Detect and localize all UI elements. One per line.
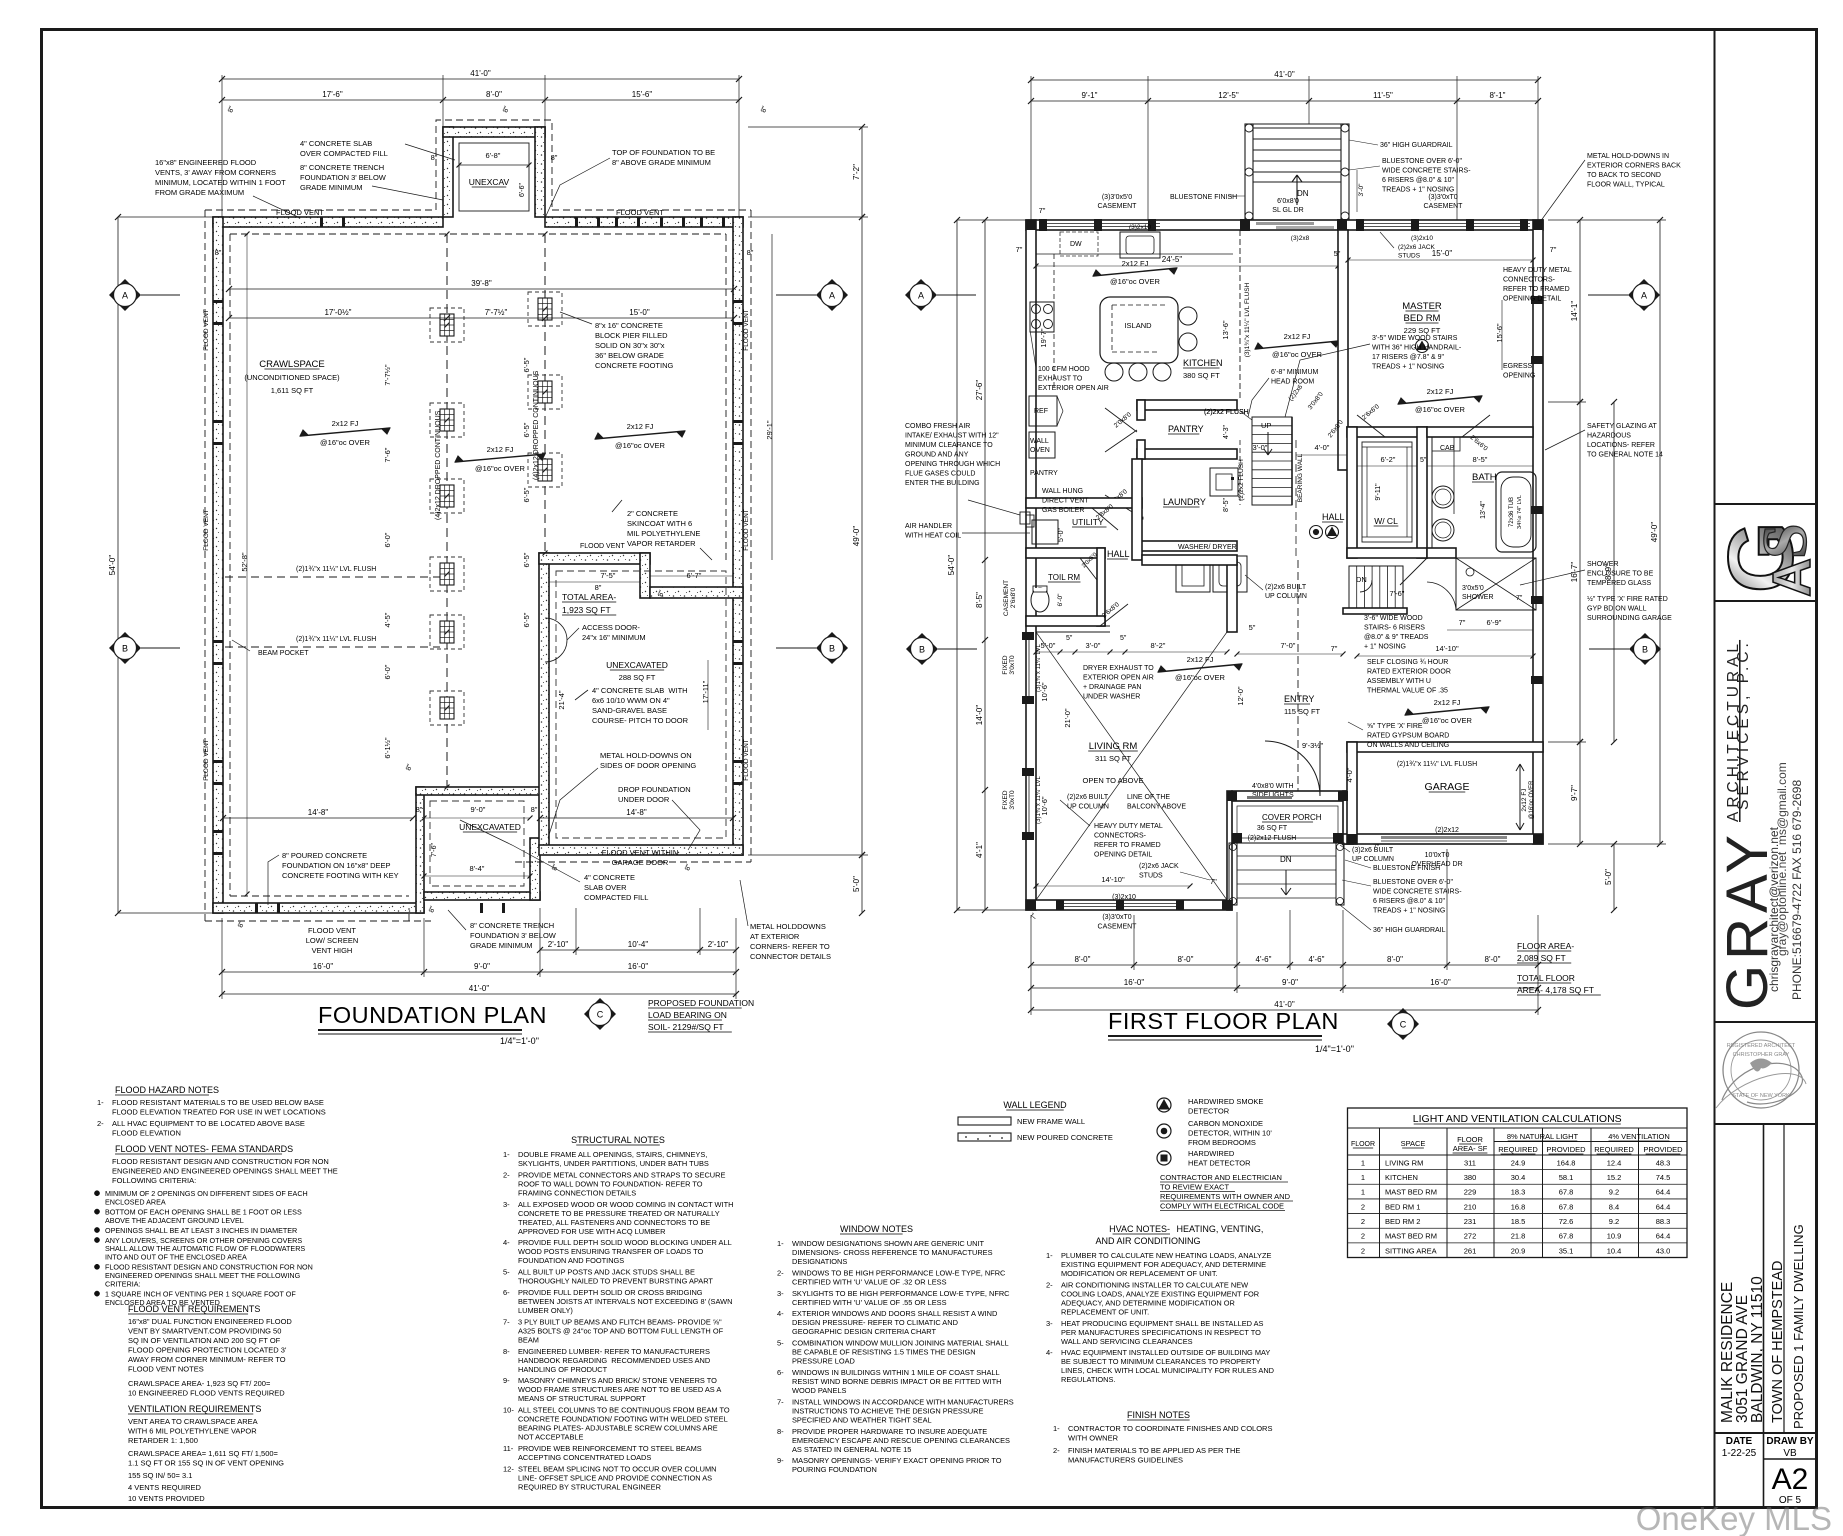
- svg-text:REQUIRED BY STRUCTURAL ENGINEE: REQUIRED BY STRUCTURAL ENGINEER: [518, 1482, 661, 1491]
- svg-text:FOUNDATION 3' BELOW: FOUNDATION 3' BELOW: [470, 931, 557, 940]
- svg-text:CONNECTORS-: CONNECTORS-: [1503, 277, 1556, 284]
- svg-text:6x6 10/10 WWM ON 4": 6x6 10/10 WWM ON 4": [592, 696, 670, 705]
- svg-text:DN: DN: [1297, 189, 1309, 198]
- svg-text:20.9: 20.9: [1511, 1246, 1526, 1255]
- svg-text:(2)2x12: (2)2x12: [1435, 827, 1459, 834]
- svg-text:A2: A2: [1772, 1463, 1809, 1496]
- svg-text:2: 2: [1361, 1232, 1365, 1241]
- svg-text:WINDOW NOTES: WINDOW NOTES: [840, 1224, 913, 1234]
- svg-text:3'0xT0: 3'0xT0: [1009, 655, 1016, 675]
- svg-text:FLOOD ELEVATION TREATED FOR US: FLOOD ELEVATION TREATED FOR USE IN WET L…: [112, 1108, 326, 1117]
- svg-text:4'-0": 4'-0": [1345, 767, 1354, 782]
- svg-text:OPENINGS SHALL BE AT LEAST 3 I: OPENINGS SHALL BE AT LEAST 3 INCHES IN D…: [105, 1226, 297, 1235]
- svg-text:ENCLOSED AREA: ENCLOSED AREA: [105, 1197, 166, 1206]
- svg-text:2'-10": 2'-10": [548, 940, 569, 949]
- svg-text:BLOCK PIER FILLED: BLOCK PIER FILLED: [595, 331, 668, 340]
- 14-8 interior chain: [223, 817, 413, 819]
- svg-text:MANUFACTURERS GUIDELINES: MANUFACTURERS GUIDELINES: [1068, 1456, 1183, 1465]
- svg-text:PROVIDE FULL DEPTH SOLID WOOD: PROVIDE FULL DEPTH SOLID WOOD BLOCKING U…: [518, 1238, 732, 1247]
- svg-text:74.5: 74.5: [1656, 1173, 1671, 1182]
- svg-text:ALL BUILT UP POSTS AND JACK ST: ALL BUILT UP POSTS AND JACK STUDS SHALL …: [518, 1268, 695, 1277]
- misc angled doors top right of hall: [1357, 415, 1385, 437]
- svg-text:36" HIGH GUARDRAIL: 36" HIGH GUARDRAIL: [1373, 927, 1446, 934]
- svg-text:48.3: 48.3: [1656, 1158, 1671, 1167]
- svg-text:UNDER DOOR: UNDER DOOR: [618, 795, 670, 804]
- svg-text:2: 2: [1361, 1217, 1365, 1226]
- svg-text:8'-0": 8'-0": [1387, 955, 1403, 964]
- svg-text:NOT ACCEPTABLE: NOT ACCEPTABLE: [518, 1433, 584, 1442]
- svg-text:CONNECTORS-: CONNECTORS-: [1094, 833, 1147, 840]
- interior top dims: [229, 288, 734, 290]
- svg-text:DOUBLE FRAME ALL OPENINGS, STA: DOUBLE FRAME ALL OPENINGS, STAIRS, CHIMN…: [518, 1150, 707, 1159]
- svg-text:72x36 TUB: 72x36 TUB: [1509, 497, 1515, 527]
- svg-text:FINISH MATERIALS TO BE APPLIED: FINISH MATERIALS TO BE APPLIED AS PER TH…: [1068, 1446, 1240, 1455]
- svg-text:2-: 2-: [1046, 1280, 1053, 1289]
- svg-text:8'-1": 8'-1": [1490, 91, 1506, 100]
- svg-text:TREATED, ALL FASTENERS AND CON: TREATED, ALL FASTENERS AND CONNECTORS TO…: [518, 1218, 710, 1227]
- svg-text:GRADE MINIMUM: GRADE MINIMUM: [470, 941, 533, 950]
- svg-text:FLOOD RESISTANT MATERIALS TO B: FLOOD RESISTANT MATERIALS TO BE USED BEL…: [112, 1098, 324, 1107]
- svg-text:RATED EXTERIOR DOOR: RATED EXTERIOR DOOR: [1367, 669, 1451, 676]
- svg-text:4'-0": 4'-0": [1315, 443, 1330, 452]
- svg-text:41'-0": 41'-0": [470, 69, 491, 78]
- svg-text:FRAMING CONNECTION DETAILS: FRAMING CONNECTION DETAILS: [518, 1188, 636, 1197]
- svg-text:3-: 3-: [1046, 1319, 1053, 1328]
- svg-text:(2)2x6 BUILT: (2)2x6 BUILT: [1265, 584, 1307, 591]
- svg-text:36" BELOW GRADE: 36" BELOW GRADE: [595, 351, 664, 360]
- svg-text:1-: 1-: [97, 1098, 104, 1107]
- svg-text:4% VENTILATION: 4% VENTILATION: [1608, 1132, 1670, 1141]
- svg-text:BE SUBJECT TO MINIMUM CLEARANC: BE SUBJECT TO MINIMUM CLEARANCES TO PROP…: [1061, 1357, 1261, 1366]
- svg-text:CORNERS- REFER TO: CORNERS- REFER TO: [750, 942, 830, 951]
- svg-text:3'-0": 3'-0": [1358, 183, 1365, 197]
- svg-text:CHRISTOPHER GRAY: CHRISTOPHER GRAY: [1733, 1052, 1790, 1058]
- svg-text:SPACE: SPACE: [1401, 1139, 1426, 1148]
- svg-text:CERTIFIED WITH 'U' VALUE OF .3: CERTIFIED WITH 'U' VALUE OF .32 OR LESS: [792, 1277, 947, 1286]
- svg-text:SELF CLOSING ¾ HOUR: SELF CLOSING ¾ HOUR: [1367, 659, 1448, 666]
- svg-text:APPROVED FOR USE WITH ACQ LUMB: APPROVED FOR USE WITH ACQ LUMBER: [518, 1227, 665, 1236]
- svg-text:LIVING RM: LIVING RM: [1385, 1158, 1423, 1167]
- svg-text:METAL HOLD-DOWNS IN: METAL HOLD-DOWNS IN: [1587, 153, 1669, 160]
- svg-text:12'-0": 12'-0": [1236, 686, 1245, 705]
- svg-text:MEANS OF STRUCTURAL SUPPORT: MEANS OF STRUCTURAL SUPPORT: [518, 1394, 646, 1403]
- svg-text:14'-8": 14'-8": [308, 808, 329, 817]
- svg-text:4" CONCRETE SLAB WITH: 4" CONCRETE SLAB WITH: [592, 686, 688, 695]
- svg-text:ABOVE THE ADJACENT GROUND LEVE: ABOVE THE ADJACENT GROUND LEVEL: [105, 1216, 244, 1225]
- svg-text:PROVIDE WEB REINFORCEMENT TO S: PROVIDE WEB REINFORCEMENT TO STEEL BEAMS: [518, 1444, 702, 1453]
- svg-text:REQUIRED: REQUIRED: [1498, 1145, 1538, 1154]
- svg-text:2x12 FJ: 2x12 FJ: [487, 445, 514, 454]
- svg-text:CONNECTOR DETAILS: CONNECTOR DETAILS: [750, 952, 831, 961]
- svg-text:LAUNDRY: LAUNDRY: [1163, 497, 1206, 507]
- svg-text:FLOOR WALL, TYPICAL: FLOOR WALL, TYPICAL: [1587, 182, 1665, 189]
- svg-text:FLOOR: FLOOR: [1457, 1135, 1483, 1144]
- svg-text:CRAWLSPACE: CRAWLSPACE: [259, 359, 324, 370]
- svg-text:BALDWIN, NY 11510: BALDWIN, NY 11510: [1749, 1276, 1766, 1423]
- svg-text:16"x8" DUAL FUNCTION ENGINEERE: 16"x8" DUAL FUNCTION ENGINEERED FLOOD: [128, 1317, 292, 1326]
- svg-text:WINDOW DESIGNATIONS SHOWN ARE: WINDOW DESIGNATIONS SHOWN ARE GENERIC UN…: [792, 1239, 985, 1248]
- svg-text:MAST BED RM: MAST BED RM: [1385, 1232, 1437, 1241]
- svg-text:HALL: HALL: [1322, 512, 1345, 522]
- outer footing dashed boundary: [205, 120, 751, 921]
- svg-text:PROPOSED FOUNDATION: PROPOSED FOUNDATION: [648, 998, 754, 1008]
- svg-text:8" CONCRETE TRENCH: 8" CONCRETE TRENCH: [300, 163, 384, 172]
- svg-text:7": 7": [1516, 595, 1523, 602]
- basement stairs DN: [1349, 566, 1403, 608]
- svg-text:6'-8": 6'-8": [486, 151, 501, 160]
- first floor top dimension chains: [1031, 79, 1538, 81]
- svg-text:HAZARDOUS: HAZARDOUS: [1587, 433, 1631, 440]
- svg-text:1.1 SQ FT OR 155 SQ IN OF VENT: 1.1 SQ FT OR 155 SQ IN OF VENT OPENING: [128, 1459, 284, 1468]
- svg-text:FLOOD VENT: FLOOD VENT: [580, 543, 625, 550]
- svg-text:WALL: WALL: [1030, 438, 1049, 445]
- svg-text:+ DRAINAGE PAN: + DRAINAGE PAN: [1083, 684, 1141, 691]
- svg-text:+ 1" NOSING: + 1" NOSING: [1364, 644, 1406, 651]
- svg-text:4'-6": 4'-6": [1256, 955, 1272, 964]
- first floor bottom dims: [1031, 964, 1538, 966]
- svg-text:8.4: 8.4: [1609, 1202, 1619, 1211]
- porch stairs: [1229, 843, 1237, 905]
- svg-text:11'-5": 11'-5": [1373, 91, 1393, 100]
- svg-text:8'-0": 8'-0": [1178, 955, 1194, 964]
- svg-text:2-: 2-: [97, 1119, 104, 1128]
- svg-text:MASONRY OPENINGS- VERIFY EXACT: MASONRY OPENINGS- VERIFY EXACT OPENING P…: [792, 1456, 1002, 1465]
- svg-text:SLAB OVER: SLAB OVER: [584, 883, 627, 892]
- svg-text:8'-5": 8'-5": [1473, 455, 1488, 464]
- svg-text:EMERGENCY ESCAPE AND RESCUE OP: EMERGENCY ESCAPE AND RESCUE OPENING CLEA…: [792, 1436, 1010, 1445]
- kitchen counter dashed: [1053, 254, 1055, 390]
- light and ventilation calculations table: [1348, 1108, 1688, 1258]
- svg-text:VENTILATION REQUIREMENTS: VENTILATION REQUIREMENTS: [128, 1404, 261, 1414]
- svg-text:8'-0": 8'-0": [486, 90, 502, 99]
- svg-text:OPENING DETAIL: OPENING DETAIL: [1094, 852, 1152, 859]
- svg-text:FIRST FLOOR PLAN: FIRST FLOOR PLAN: [1108, 1008, 1339, 1034]
- left exterior dim 54-0: [117, 217, 119, 913]
- svg-text:TO GENERAL NOTE 14: TO GENERAL NOTE 14: [1587, 452, 1663, 459]
- right side dims first floor: [1579, 220, 1581, 402]
- svg-text:ENGINEERED LUMBER- REFER TO MA: ENGINEERED LUMBER- REFER TO MANUFACTURER…: [518, 1347, 710, 1356]
- svg-text:4-: 4-: [777, 1309, 784, 1318]
- svg-text:TREADS + 1" NOSING: TREADS + 1" NOSING: [1373, 908, 1445, 915]
- svg-text:15'-0": 15'-0": [629, 308, 650, 317]
- svg-text:MASTER: MASTER: [1402, 301, 1442, 312]
- svg-text:10.9: 10.9: [1607, 1232, 1622, 1241]
- svg-text:SERVICES, P.C.: SERVICES, P.C.: [1735, 639, 1752, 810]
- svg-text:2-: 2-: [1053, 1446, 1060, 1455]
- svg-text:BEARING PLATES- ADJUSTABLE SCR: BEARING PLATES- ADJUSTABLE SCREW COLUMNS…: [518, 1424, 718, 1433]
- svg-text:(2)2x6 JACK: (2)2x6 JACK: [1398, 244, 1436, 251]
- svg-text:DETECTOR: DETECTOR: [1188, 1107, 1230, 1116]
- svg-text:16'-0": 16'-0": [1124, 978, 1145, 987]
- svg-text:DRAW BY: DRAW BY: [1766, 1436, 1814, 1447]
- svg-text:A: A: [1641, 291, 1647, 301]
- svg-text:6'-9": 6'-9": [1487, 618, 1502, 627]
- svg-text:FLOOD VENT NOTES: FLOOD VENT NOTES: [128, 1365, 204, 1374]
- svg-text:HEAVY DUTY METAL: HEAVY DUTY METAL: [1503, 267, 1572, 274]
- svg-text:58.1: 58.1: [1559, 1173, 1574, 1182]
- svg-text:FLOOD VENT REQUIREMENTS: FLOOD VENT REQUIREMENTS: [128, 1304, 260, 1314]
- svg-text:7'-7½": 7'-7½": [485, 308, 508, 317]
- svg-text:BEAM: BEAM: [518, 1335, 539, 1344]
- svg-text:TEMPERED GLASS: TEMPERED GLASS: [1587, 580, 1652, 587]
- svg-text:TO BACK TO SECOND: TO BACK TO SECOND: [1587, 172, 1661, 179]
- svg-text:@16"oc OVER: @16"oc OVER: [615, 441, 665, 450]
- svg-text:UP COLUMN: UP COLUMN: [1067, 804, 1109, 811]
- svg-text:13'-6": 13'-6": [1221, 320, 1230, 339]
- svg-text:SKYLIGHTS TO BE HIGH PERFORMAN: SKYLIGHTS TO BE HIGH PERFORMANCE LOW-E T…: [792, 1289, 1010, 1298]
- svg-text:2'-10": 2'-10": [708, 940, 729, 949]
- svg-text:POURING FOUNDATION: POURING FOUNDATION: [792, 1465, 877, 1474]
- svg-text:(2)1¾"x 11¼" LVL FLUSH: (2)1¾"x 11¼" LVL FLUSH: [296, 566, 376, 573]
- svg-text:(3)2x6 BUILT: (3)2x6 BUILT: [1352, 847, 1394, 854]
- svg-text:4" CONCRETE SLAB: 4" CONCRETE SLAB: [300, 139, 372, 148]
- svg-text:DETECTOR, WITHIN 10': DETECTOR, WITHIN 10': [1188, 1129, 1272, 1138]
- cover porch: [1232, 801, 1343, 843]
- svg-text:REPLACEMENT OF UNIT.: REPLACEMENT OF UNIT.: [1061, 1307, 1149, 1316]
- svg-text:BE CAPABLE OF RESISTING 1.5 TI: BE CAPABLE OF RESISTING 1.5 TIMES THE DE…: [792, 1348, 976, 1357]
- svg-text:A: A: [122, 291, 128, 301]
- svg-text:OVER COMPACTED FILL: OVER COMPACTED FILL: [300, 149, 388, 158]
- svg-text:DRYER EXHAUST TO: DRYER EXHAUST TO: [1083, 665, 1154, 672]
- interior dim ticks along girders: [445, 232, 450, 237]
- svg-text:4'-1": 4'-1": [975, 842, 984, 858]
- svg-text:SOIL- 2129#/SQ FT: SOIL- 2129#/SQ FT: [648, 1022, 724, 1032]
- svg-text:6'-8" MINIMUM: 6'-8" MINIMUM: [1271, 369, 1319, 376]
- svg-text:ALL STEEL COLUMNS TO BE CONTIN: ALL STEEL COLUMNS TO BE CONTINUOUS FROM …: [518, 1406, 730, 1415]
- svg-text:VAPOR RETARDER: VAPOR RETARDER: [627, 539, 696, 548]
- svg-text:10'0xT0: 10'0xT0: [1425, 852, 1450, 859]
- svg-text:3'0x8'0: 3'0x8'0: [1307, 391, 1325, 412]
- svg-text:3 PLY BUILT UP BEAMS AND FLITC: 3 PLY BUILT UP BEAMS AND FLITCH BEAMS- P…: [518, 1317, 722, 1326]
- svg-text:HANDLING OF PRODUCT: HANDLING OF PRODUCT: [518, 1365, 608, 1374]
- svg-text:AND AIR CONDITIONING: AND AIR CONDITIONING: [1095, 1236, 1200, 1246]
- svg-text:16"x8" ENGINEERED FLOOD: 16"x8" ENGINEERED FLOOD: [155, 158, 257, 167]
- svg-text:19'-7": 19'-7": [1039, 328, 1048, 347]
- svg-text:1,611 SQ FT: 1,611 SQ FT: [271, 386, 314, 395]
- svg-text:9'-1": 9'-1": [1082, 91, 1098, 100]
- stairs up center: [1252, 417, 1292, 505]
- svg-text:RATED GYPSUM BOARD: RATED GYPSUM BOARD: [1367, 733, 1449, 740]
- svg-text:2-: 2-: [503, 1170, 510, 1179]
- svg-text:7-: 7-: [777, 1397, 784, 1406]
- svg-text:PLUMBER TO CALCULATE NEW HEATI: PLUMBER TO CALCULATE NEW HEATING LOADS, …: [1061, 1251, 1271, 1260]
- svg-text:4'-5": 4'-5": [383, 612, 392, 627]
- svg-text:36" HIGH GUARDRAIL: 36" HIGH GUARDRAIL: [1380, 142, 1453, 149]
- svg-text:CONTRACTOR AND ELECTRICIAN: CONTRACTOR AND ELECTRICIAN: [1160, 1173, 1282, 1182]
- svg-text:1: 1: [1361, 1158, 1365, 1167]
- svg-text:GEOGRAPHIC DESIGN CRITERIA CHA: GEOGRAPHIC DESIGN CRITERIA CHART: [792, 1327, 936, 1336]
- svg-text:COMPLY WITH ELECTRICAL CODE: COMPLY WITH ELECTRICAL CODE: [1160, 1202, 1284, 1211]
- svg-text:WITH OWNER: WITH OWNER: [1068, 1434, 1119, 1443]
- svg-text:311: 311: [1464, 1158, 1476, 1167]
- svg-text:6 RISERS @8.0" & 10": 6 RISERS @8.0" & 10": [1382, 177, 1455, 184]
- svg-text:8'-0": 8'-0": [1485, 955, 1501, 964]
- svg-text:SAND-GRAVEL BASE: SAND-GRAVEL BASE: [592, 706, 667, 715]
- svg-text:7": 7": [1459, 618, 1466, 627]
- svg-text:LOW/ SCREEN: LOW/ SCREEN: [306, 936, 359, 945]
- svg-text:OPENING DETAIL: OPENING DETAIL: [1503, 296, 1561, 303]
- svg-text:NEW FRAME WALL: NEW FRAME WALL: [1017, 1117, 1085, 1126]
- svg-text:REGULATIONS.: REGULATIONS.: [1061, 1375, 1115, 1384]
- svg-text:COOLING LOADS, ANALYZE EXISTIN: COOLING LOADS, ANALYZE EXISTING EQUIPMEN…: [1061, 1289, 1259, 1298]
- svg-text:SITTING AREA: SITTING AREA: [1385, 1246, 1437, 1255]
- svg-text:VENT BY SMARTVENT.COM PROVIDIN: VENT BY SMARTVENT.COM PROVIDING 50: [128, 1327, 281, 1336]
- hall bottom walls / entry top: [1227, 560, 1237, 632]
- svg-text:PROVIDE FULL DEPTH SOLID OR CR: PROVIDE FULL DEPTH SOLID OR CROSS BRIDGI…: [518, 1288, 703, 1297]
- svg-text:3'-6" WIDE WOOD: 3'-6" WIDE WOOD: [1364, 615, 1423, 622]
- svg-text:49'-0": 49'-0": [1650, 522, 1659, 543]
- svg-text:2-: 2-: [777, 1268, 784, 1277]
- svg-text:REGISTERED ARCHITECT: REGISTERED ARCHITECT: [1727, 1043, 1796, 1049]
- svg-text:AIR HANDLER: AIR HANDLER: [905, 523, 952, 530]
- svg-text:AS STATED IN GENERAL NOTE 15: AS STATED IN GENERAL NOTE 15: [792, 1445, 911, 1454]
- svg-text:ENGINEERED AND ENGINEERED OPEN: ENGINEERED AND ENGINEERED OPENINGS SHALL…: [112, 1167, 338, 1176]
- svg-text:PRESSURE LOAD: PRESSURE LOAD: [792, 1357, 855, 1366]
- svg-text:DESIGN PRESSURE- REFER TO CLIM: DESIGN PRESSURE- REFER TO CLIMATIC AND: [792, 1318, 958, 1327]
- svg-text:FLOOD VENT NOTES- FEMA STANDAR: FLOOD VENT NOTES- FEMA STANDARDS: [115, 1144, 293, 1154]
- svg-text:@16"oc OVER: @16"oc OVER: [1415, 405, 1465, 414]
- svg-text:229: 229: [1464, 1188, 1477, 1197]
- svg-text:6-: 6-: [777, 1368, 784, 1377]
- svg-text:TOIL RM: TOIL RM: [1048, 573, 1080, 582]
- svg-text:MINIMUM CLEARANCE TO: MINIMUM CLEARANCE TO: [905, 442, 993, 449]
- svg-text:9'-3½": 9'-3½": [1302, 741, 1324, 750]
- svg-text:OPENING THROUGH WHICH: OPENING THROUGH WHICH: [905, 461, 1000, 468]
- svg-text:2x12 FJ: 2x12 FJ: [1434, 698, 1461, 707]
- svg-text:EGRESS: EGRESS: [1503, 363, 1533, 370]
- svg-text:@16"oc OVER: @16"oc OVER: [1422, 716, 1472, 725]
- svg-text:BLUESTONE FINISH: BLUESTONE FINISH: [1373, 865, 1440, 872]
- svg-text:5": 5": [1120, 635, 1127, 642]
- svg-text:6'-7": 6'-7": [687, 571, 702, 580]
- svg-text:LOCATIONS- REFER: LOCATIONS- REFER: [1587, 442, 1655, 449]
- svg-text:FINISH NOTES: FINISH NOTES: [1127, 1410, 1190, 1420]
- svg-text:8": 8": [428, 905, 437, 914]
- svg-text:PHONE:516679-4722 FAX 516 679-: PHONE:516679-4722 FAX 516 679-2698: [1790, 780, 1804, 1000]
- svg-text:(3)3'0xT0: (3)3'0xT0: [1102, 914, 1131, 921]
- foundation garage area walls: [539, 553, 549, 847]
- svg-text:WITH HEAT COIL: WITH HEAT COIL: [905, 533, 961, 540]
- svg-text:UNEXCAVATED: UNEXCAVATED: [459, 822, 521, 832]
- svg-text:6-: 6-: [503, 1288, 510, 1297]
- svg-text:SOLID ON 30"x 30"x: SOLID ON 30"x 30"x: [595, 341, 665, 350]
- svg-text:TO REVIEW EXACT: TO REVIEW EXACT: [1160, 1183, 1229, 1192]
- svg-text:PROVIDED: PROVIDED: [1546, 1145, 1586, 1154]
- svg-text:REFER TO FRAMED: REFER TO FRAMED: [1094, 842, 1161, 849]
- svg-text:14'-10": 14'-10": [1435, 644, 1459, 653]
- svg-text:24'-5": 24'-5": [1162, 255, 1183, 264]
- svg-text:METAL HOLD-DOWNS ON: METAL HOLD-DOWNS ON: [600, 751, 692, 760]
- svg-text:14'-8": 14'-8": [626, 808, 647, 817]
- svg-text:5'-0": 5'-0": [852, 876, 861, 892]
- svg-text:UNDER WASHER: UNDER WASHER: [1083, 694, 1140, 701]
- svg-text:1/4"=1'-0": 1/4"=1'-0": [500, 1036, 539, 1046]
- svg-text:ON WALLS AND CEILING: ON WALLS AND CEILING: [1367, 742, 1449, 749]
- svg-text:17'-0½": 17'-0½": [324, 308, 351, 317]
- svg-text:ACCEPTING CONCENTRATED LOADS: ACCEPTING CONCENTRATED LOADS: [518, 1453, 651, 1462]
- svg-text:6'-1½": 6'-1½": [383, 737, 392, 759]
- svg-text:TOWN OF HEMPSTEAD: TOWN OF HEMPSTEAD: [1770, 1261, 1786, 1423]
- svg-text:AREA- 4,178 SQ FT: AREA- 4,178 SQ FT: [1517, 985, 1594, 995]
- svg-text:BED RM 2: BED RM 2: [1385, 1217, 1420, 1226]
- svg-text:RESIST WIND BORNE DEBRIS IMPAC: RESIST WIND BORNE DEBRIS IMPACT OR BE FI…: [792, 1377, 1001, 1386]
- toilet room: [1026, 548, 1105, 558]
- svg-text:FOUNDATION ON 16"x8" DEEP: FOUNDATION ON 16"x8" DEEP: [282, 861, 391, 870]
- svg-text:WOOD FRAME STRUCTURES ARE NOT: WOOD FRAME STRUCTURES ARE NOT TO BE USED…: [518, 1385, 721, 1394]
- svg-text:6'-5": 6'-5": [522, 422, 531, 437]
- svg-text:12.4: 12.4: [1607, 1158, 1622, 1167]
- svg-text:UNEXCAV: UNEXCAV: [469, 177, 510, 187]
- svg-text:67.8: 67.8: [1559, 1202, 1574, 1211]
- svg-text:8'-0": 8'-0": [1075, 955, 1091, 964]
- svg-text:OVEN: OVEN: [1030, 447, 1050, 454]
- svg-text:17'-6": 17'-6": [322, 90, 343, 99]
- svg-text:5-: 5-: [777, 1339, 784, 1348]
- svg-text:AIR CONDITIONING INSTALLER TO: AIR CONDITIONING INSTALLER TO CALCULATE …: [1061, 1280, 1248, 1289]
- svg-text:HEAT PRODUCING EQUIPMENT SHALL: HEAT PRODUCING EQUIPMENT SHALL BE INSTAL…: [1061, 1319, 1264, 1328]
- svg-text:9.2: 9.2: [1609, 1188, 1619, 1197]
- svg-text:TREADS + 1" NOSING: TREADS + 1" NOSING: [1382, 187, 1454, 194]
- svg-text:10-: 10-: [503, 1406, 514, 1415]
- svg-text:(4)2x12 DROPPED CONTINUOUS: (4)2x12 DROPPED CONTINUOUS: [533, 370, 540, 480]
- svg-text:HALL: HALL: [1107, 549, 1130, 559]
- svg-text:7'-6": 7'-6": [1390, 589, 1405, 598]
- svg-text:FLOOR AREA-: FLOOR AREA-: [1517, 941, 1574, 951]
- svg-text:SKYLIGHTS, UNDER PARTITIONS, U: SKYLIGHTS, UNDER PARTITIONS, UNDER BATH …: [518, 1159, 709, 1168]
- svg-text:AREA- SF: AREA- SF: [1453, 1144, 1488, 1153]
- svg-text:8": 8": [502, 105, 511, 114]
- svg-text:12'-5": 12'-5": [1218, 91, 1239, 100]
- svg-text:OPENING: OPENING: [1503, 373, 1535, 380]
- svg-text:THERMAL VALUE OF .35: THERMAL VALUE OF .35: [1367, 688, 1448, 695]
- svg-text:CARBON MONOXIDE: CARBON MONOXIDE: [1188, 1119, 1263, 1128]
- svg-text:@16"oc OVER: @16"oc OVER: [320, 438, 370, 447]
- svg-text:UNEXCAVATED: UNEXCAVATED: [606, 660, 668, 670]
- svg-text:8": 8": [747, 248, 754, 257]
- svg-text:WITH 6 MIL POLYETHYLENE VAPOR: WITH 6 MIL POLYETHYLENE VAPOR: [128, 1427, 257, 1436]
- svg-text:7": 7": [1039, 206, 1046, 215]
- svg-text:WOOD POSTS ENSURING TRANSFER O: WOOD POSTS ENSURING TRANSFER OF LOADS TO: [518, 1247, 703, 1256]
- svg-text:49'-0": 49'-0": [852, 526, 861, 547]
- svg-text:C: C: [1400, 1020, 1407, 1030]
- svg-text:(2)2x6 JACK: (2)2x6 JACK: [1139, 863, 1179, 870]
- svg-text:BLUESTONE OVER 6'-0": BLUESTONE OVER 6'-0": [1373, 879, 1453, 886]
- svg-text:29'-1": 29'-1": [765, 420, 774, 439]
- svg-text:A: A: [918, 291, 924, 301]
- svg-text:VENTS, 3' AWAY FROM CORNERS: VENTS, 3' AWAY FROM CORNERS: [155, 168, 276, 177]
- svg-text:FOUNDATION 3' BELOW: FOUNDATION 3' BELOW: [300, 173, 387, 182]
- svg-text:288 SQ FT: 288 SQ FT: [619, 673, 656, 682]
- svg-text:(4)2x12 DROPPED CONTINUOUS: (4)2x12 DROPPED CONTINUOUS: [435, 410, 442, 520]
- svg-text:164.8: 164.8: [1557, 1158, 1576, 1167]
- svg-text:4'-6": 4'-6": [1309, 955, 1325, 964]
- svg-text:gray@optonline.net ms@gmail.c: gray@optonline.net ms@gmail.com: [1775, 762, 1789, 956]
- svg-text:8-: 8-: [777, 1427, 784, 1436]
- svg-text:TOTAL AREA-: TOTAL AREA-: [562, 592, 616, 602]
- svg-text:9'-7": 9'-7": [1570, 785, 1579, 801]
- svg-text:1-: 1-: [1053, 1424, 1060, 1433]
- svg-text:8-: 8-: [503, 1347, 510, 1356]
- svg-text:2: 2: [1361, 1246, 1365, 1255]
- svg-text:DN: DN: [1356, 575, 1367, 584]
- svg-text:WINDOWS TO BE HIGH PERFORMANCE: WINDOWS TO BE HIGH PERFORMANCE LOW-E TYP…: [792, 1268, 1006, 1277]
- svg-text:BEARING WALL: BEARING WALL: [1297, 453, 1304, 502]
- svg-text:STATE OF NEW YORK: STATE OF NEW YORK: [1732, 1093, 1790, 1099]
- svg-text:6'-5": 6'-5": [522, 612, 531, 627]
- svg-text:THOROUGHLY NAILED TO PREVENT B: THOROUGHLY NAILED TO PREVENT BURSTING AP…: [518, 1277, 713, 1286]
- girder dashed lines with piers: [446, 234, 448, 787]
- svg-text:⅝" TYPE 'X' FIRE: ⅝" TYPE 'X' FIRE: [1367, 723, 1423, 730]
